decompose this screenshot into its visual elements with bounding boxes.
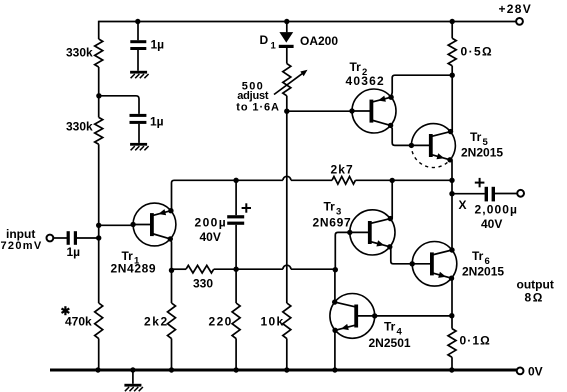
svg-text:Tr: Tr <box>350 60 362 74</box>
wire C1 to ground <box>137 50 139 71</box>
rheostat R4 500 adjust <box>274 64 308 96</box>
wire 10k to ground rail <box>286 339 288 371</box>
svg-text:0V: 0V <box>528 364 543 378</box>
ground under C2 <box>130 143 149 150</box>
svg-text:output: output <box>517 277 554 291</box>
svg-text:330k: 330k <box>66 120 93 134</box>
node Tr3 base / Tr4 collector junction <box>333 267 338 272</box>
svg-text:8Ω: 8Ω <box>525 290 545 304</box>
wire 2k7 to rail <box>355 179 452 181</box>
ground below bottom rail <box>124 384 142 391</box>
node Tr5 emitter exit <box>447 157 452 162</box>
wire Tr4 base to 0.1ohm node <box>375 315 452 317</box>
wire bias tap to C2 <box>99 96 139 114</box>
svg-text:2N697: 2N697 <box>313 216 352 230</box>
wire C2 to ground <box>138 124 140 143</box>
resistor R7 2k7 <box>332 177 355 185</box>
svg-text:1µ: 1µ <box>151 38 165 52</box>
svg-text:2,000µ: 2,000µ <box>475 202 519 216</box>
wire Tr1 collector riser <box>172 180 237 210</box>
node Tr5 collector exit <box>448 129 453 134</box>
node Tr1 bottom lead exit <box>168 236 173 241</box>
node Tr2 collector / rail junction <box>450 73 455 78</box>
svg-text:1µ: 1µ <box>150 114 164 128</box>
node Tr1 base wire tap <box>96 223 101 228</box>
wire 2k7 line left of hop <box>236 179 283 181</box>
wire left bias chain top segment <box>98 21 100 39</box>
polarity + for output cap <box>475 178 485 187</box>
svg-text:Tr: Tr <box>384 320 396 334</box>
node rail / 2k7 junction <box>449 178 454 183</box>
node bias divider tap <box>96 93 101 98</box>
diode D1 OA200 <box>279 32 294 48</box>
svg-text:adjust: adjust <box>237 90 269 102</box>
svg-text:2N2015: 2N2015 <box>461 146 503 160</box>
resistor R10 330 <box>186 265 214 273</box>
node top rail / 0.5ohm junction <box>450 19 455 24</box>
node 2k7 / Tr3 collector junction <box>390 178 395 183</box>
terminal output X <box>517 190 524 197</box>
node Tr6 base at circle <box>410 261 415 266</box>
node rail 10k <box>284 367 289 372</box>
transistor Q3 Tr3 2N697 <box>350 210 395 255</box>
transistor Q6 Tr6 2N2015 <box>412 241 457 286</box>
svg-text:2N2015: 2N2015 <box>462 264 504 278</box>
node Tr2 base at circle <box>349 108 354 113</box>
svg-text:1µ: 1µ <box>67 245 81 259</box>
wire left chain to ground rail <box>98 339 100 371</box>
wire hop over bias vertical at 330 line <box>283 265 291 269</box>
terminal input <box>47 235 54 242</box>
wire top rail to 0.5ohm <box>451 22 453 39</box>
wire D1 to rheostat <box>286 48 288 64</box>
svg-text:D: D <box>260 33 269 47</box>
svg-text:330: 330 <box>193 277 213 291</box>
capacitor C1 1u (plates) <box>130 40 146 50</box>
svg-text:720mV: 720mV <box>1 240 43 252</box>
svg-text:1: 1 <box>271 41 277 52</box>
node 2k7 line / 200u junction <box>233 178 238 183</box>
wire Tr2 emitter to Tr5 base <box>391 125 412 145</box>
wire hop to Tr3 base node <box>291 268 335 270</box>
node rail Tr4 emitter <box>332 367 337 372</box>
resistor R2 330k lower <box>95 117 103 144</box>
node Tr4 base / 0.1ohm junction <box>449 313 454 318</box>
wire left bias chain lower segment <box>98 144 100 303</box>
resistor R9 220 <box>232 303 240 339</box>
ground under C1 <box>130 71 149 78</box>
node top rail / C1 junction <box>135 19 140 24</box>
svg-text:Tr: Tr <box>470 130 482 144</box>
node 330 line / 220 junction <box>233 267 238 272</box>
capacitor C4 2000u output (plates) <box>485 187 495 202</box>
resistor R8 2k2 <box>168 303 176 339</box>
node Tr4 collector exit <box>332 299 337 304</box>
node rail 220 <box>233 367 238 372</box>
node rail 470k <box>95 367 100 372</box>
transistor Q4 Tr4 2N2501 <box>330 294 375 339</box>
wire hop to 2k7 resistor <box>291 179 332 181</box>
resistor R3 470k <box>95 303 103 339</box>
node Tr2 emitter exit <box>388 123 393 128</box>
node input / bias chain junction <box>96 235 101 240</box>
wire 200u stem from 2k7 line <box>235 180 237 215</box>
wire Tr1 bottom lead to 2k2 <box>170 239 171 303</box>
resistor R6 0.5 ohm <box>448 38 456 65</box>
wire Tr2 base from bias node <box>287 110 352 112</box>
svg-text:470k: 470k <box>65 315 92 329</box>
wire top +28V supply rail <box>99 21 517 23</box>
svg-text:330k: 330k <box>66 46 93 60</box>
svg-text:Tr: Tr <box>324 200 336 214</box>
wire top rail to D1 <box>286 22 288 33</box>
node Tr2 collector exit <box>388 95 393 100</box>
node Tr1 base at circle <box>130 222 135 227</box>
svg-text:40V: 40V <box>481 217 502 231</box>
transistor Q1 Tr1 2N4289 <box>133 203 176 246</box>
wire output cap to terminal <box>495 193 517 195</box>
asterisk marker <box>62 306 70 315</box>
svg-text:40362: 40362 <box>346 74 385 88</box>
svg-text:OA200: OA200 <box>300 34 338 48</box>
node top rail / D1 junction <box>284 19 289 24</box>
node Tr3 emitter exit <box>387 244 392 249</box>
polarity + for 200u cap <box>242 203 251 212</box>
wire Tr2 collector to rail <box>391 75 452 97</box>
svg-text:to 1·6A: to 1·6A <box>236 101 280 113</box>
svg-text:200µ: 200µ <box>195 215 228 229</box>
node Tr1 top lead exit <box>168 208 173 213</box>
node Tr1 collector / 330 line junction <box>169 268 174 273</box>
wire 2k2 to ground rail <box>171 339 173 371</box>
resistor R1 330k upper <box>95 39 103 67</box>
wire left bias chain middle segment <box>98 67 100 117</box>
node Tr5 base at circle <box>409 143 414 148</box>
terminal +28V <box>516 18 523 25</box>
svg-text:X: X <box>459 198 467 212</box>
wire 220 stem <box>235 269 237 303</box>
node X output junction <box>449 191 454 196</box>
wire Tr3 emitter to Tr6 base <box>390 247 412 264</box>
node Tr6 emitter exit <box>449 276 454 281</box>
node rail 0.1ohm <box>449 367 454 372</box>
node Tr3 base at circle <box>347 230 352 235</box>
terminal 0V <box>517 368 524 375</box>
wire Tr1 base from input node <box>99 224 133 226</box>
capacitor C2 1u (plates) <box>130 114 147 124</box>
capacitor C3 1u input (plates) <box>67 231 77 245</box>
wire input terminal to C3 <box>53 237 68 239</box>
svg-text:0·1Ω: 0·1Ω <box>460 334 491 348</box>
node Tr3 collector exit <box>388 216 393 221</box>
svg-text:10k: 10k <box>261 315 285 329</box>
wire C1 stem from top rail <box>137 22 139 41</box>
wire 330 line from Tr1 collector node <box>172 268 187 270</box>
node rail ground stem <box>130 367 135 372</box>
wire X node to output cap <box>452 193 485 195</box>
wire ground stem below rail <box>132 370 134 384</box>
resistor R11 0.1 ohm <box>448 329 456 358</box>
svg-text:40V: 40V <box>200 230 221 244</box>
wire 0.5ohm to Tr5 collector <box>451 66 453 132</box>
wire Tr4 emitter to ground rail <box>334 331 336 371</box>
node Tr4 base at circle <box>372 313 377 318</box>
wire hop over bias vertical at 2k7 line <box>283 176 291 180</box>
wire Tr5 emitter down rail <box>451 160 453 250</box>
wire rheostat down through hops to 10k <box>286 96 288 303</box>
wire 330 to 200u node <box>214 268 236 270</box>
svg-text:Tr: Tr <box>472 249 484 263</box>
node rail 2k2 <box>169 367 174 372</box>
node Tr6 collector exit <box>449 247 454 252</box>
wire C3 to input node <box>77 237 99 239</box>
wire Tr3 base riser <box>335 232 350 269</box>
svg-text:input: input <box>6 227 35 241</box>
wire bottom 0V rail <box>50 369 517 372</box>
node Tr4 emitter exit <box>332 328 337 333</box>
wire 330 line to hop <box>236 268 283 270</box>
svg-text:2k2: 2k2 <box>144 315 169 329</box>
wire Tr4 collector up to Tr3 base node <box>334 270 336 303</box>
wire 200u to 330 line <box>235 225 237 269</box>
svg-text:+28V: +28V <box>499 2 533 16</box>
svg-text:220: 220 <box>209 315 233 329</box>
resistor R5 10k <box>283 303 291 339</box>
svg-text:2k7: 2k7 <box>331 163 354 177</box>
svg-text:0·5Ω: 0·5Ω <box>461 45 494 59</box>
node rheostat / Tr2 base junction <box>284 109 289 114</box>
svg-text:2N4289: 2N4289 <box>111 262 157 276</box>
wire Tr6 emitter down to 0.1ohm <box>451 278 453 328</box>
capacitor C5 200u (plates) <box>227 215 244 225</box>
transistor Q2 Tr2 40362 <box>352 89 396 133</box>
transistor Q5 Tr5 2N2015 <box>411 124 455 168</box>
wire 220 to ground rail <box>235 339 237 371</box>
svg-text:2N2501: 2N2501 <box>369 336 411 350</box>
wire Tr3 collector to 2k7 node <box>391 180 393 218</box>
wire 0.1ohm to ground rail <box>451 357 453 370</box>
